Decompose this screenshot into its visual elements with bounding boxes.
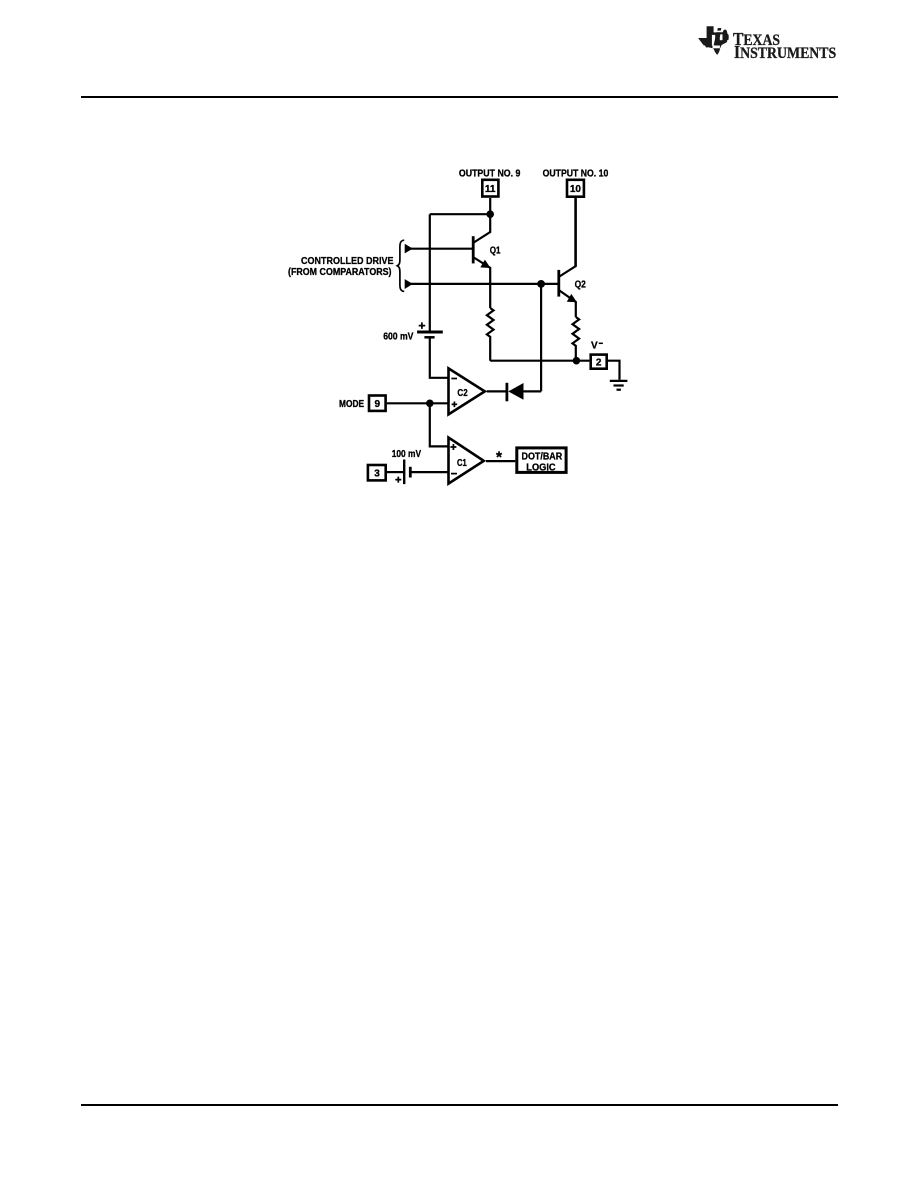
svg-text:*: * <box>496 449 503 466</box>
svg-text:LOGIC: LOGIC <box>526 463 555 474</box>
svg-text:MODE: MODE <box>339 399 364 410</box>
svg-text:Q2: Q2 <box>575 278 586 290</box>
svg-text:600 mV: 600 mV <box>383 332 413 343</box>
svg-text:OUTPUT NO. 10: OUTPUT NO. 10 <box>543 168 609 179</box>
svg-text:100 mV: 100 mV <box>392 449 422 460</box>
svg-text:2: 2 <box>596 357 602 368</box>
svg-text:DOT/BAR: DOT/BAR <box>522 451 563 462</box>
svg-text:V: V <box>591 341 598 352</box>
svg-text:(FROM COMPARATORS): (FROM COMPARATORS) <box>288 267 392 278</box>
svg-text:9: 9 <box>375 399 381 410</box>
svg-text:C1: C1 <box>457 458 467 469</box>
svg-text:Q1: Q1 <box>490 244 501 256</box>
svg-text:OUTPUT NO. 9: OUTPUT NO. 9 <box>459 168 521 179</box>
svg-text:C2: C2 <box>457 388 468 399</box>
svg-text:3: 3 <box>374 469 380 480</box>
svg-text:11: 11 <box>485 184 496 195</box>
svg-text:CONTROLLED DRIVE: CONTROLLED DRIVE <box>301 256 394 267</box>
svg-text:10: 10 <box>570 184 582 195</box>
